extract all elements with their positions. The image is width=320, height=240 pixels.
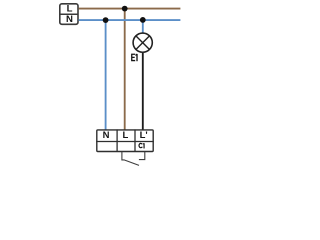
terminal block row divider: [96, 141, 154, 143]
node junction brown phase: [122, 6, 128, 12]
terminal block column divider 2: [134, 129, 136, 152]
svg-text:N: N: [66, 14, 73, 25]
switch contact C1 hook: [139, 152, 145, 160]
terminal block column divider 1: [116, 129, 118, 152]
switch common lead and blade: [122, 152, 139, 166]
svg-text:L: L: [67, 4, 73, 15]
wire brown phase vertical to terminal L: [124, 9, 126, 131]
terminal block outline: [97, 130, 153, 152]
terminal label C1: [139, 143, 144, 148]
node junction blue neutral right: [140, 17, 146, 23]
wire blue neutral vertical to terminal N: [105, 20, 107, 131]
lamp E1: [133, 33, 152, 52]
svg-text:L': L': [140, 130, 148, 141]
supply box L/N outline: [60, 4, 78, 25]
wire black lamp to terminal L': [142, 53, 144, 131]
svg-text:L: L: [122, 130, 128, 141]
label E1: [132, 54, 137, 61]
wire brown phase horizontal: [79, 8, 181, 10]
wire blue neutral drop to lamp: [142, 20, 144, 33]
supply box divider: [60, 13, 78, 15]
wire blue neutral horizontal: [79, 19, 181, 21]
node junction blue neutral left: [103, 17, 109, 23]
svg-text:N: N: [103, 130, 110, 141]
